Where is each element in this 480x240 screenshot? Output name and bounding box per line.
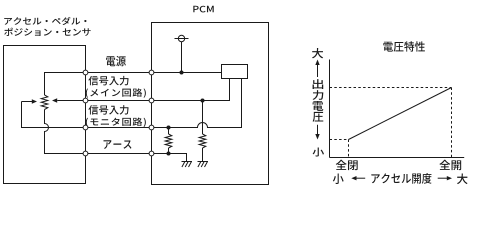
y axis label 小 [313, 147, 324, 156]
potentiometer track resistor (APP sensor) [41, 95, 48, 110]
terminal circle sensor side dengen [83, 70, 88, 75]
net label アース (earth) [103, 140, 131, 149]
terminal circle PCM side dengen [149, 70, 154, 75]
net label 電源 (power) [106, 56, 126, 66]
wiper arrow (main) on メイン wire pointing left into track [57, 100, 85, 102]
x axis label 大 [457, 174, 468, 185]
x axis left arrow [356, 177, 365, 179]
characteristic line output voltage vs opening [349, 88, 452, 140]
x axis tick label 全閉 [336, 160, 358, 170]
junction dot on モニタ line at R1 [167, 126, 171, 130]
x axis line [330, 157, 465, 159]
net label (モニタ回路) [86, 118, 146, 127]
y axis up arrow [317, 64, 319, 77]
resistor R1 lead from モニタ line [168, 128, 170, 135]
chassis ground symbol for R2 [198, 162, 209, 168]
regulator block U1 [222, 65, 248, 79]
dashed guide closed throttle vertical [348, 140, 350, 158]
wire: potentiometer bottom to earth terminal with hop over wiper wire [45, 110, 86, 154]
wire: power feed from 電源 terminal to potentiometer top [45, 73, 86, 96]
terminal circle PCM side monitor [149, 125, 154, 130]
resistor R2 lead from メイン line [202, 101, 204, 135]
wire 信号入力 main sensor to PCM [86, 79, 230, 101]
wire 電源 power sensor to PCM regulator [86, 72, 222, 74]
terminal circle PCM side earth [149, 151, 154, 156]
y axis label 力 [313, 90, 324, 100]
wire アース earth sensor to PCM then chassis ground [86, 154, 187, 162]
terminal circle PCM side main [149, 98, 154, 103]
resistor R2 pull-down on main signal [199, 134, 206, 148]
label accelerator pedal position sensor line2 ポジション・センサ [4, 28, 90, 36]
junction dot R1 bottom on アース line [167, 152, 171, 156]
dashed guide max voltage [330, 87, 452, 89]
y axis down arrow [317, 125, 319, 135]
sensor box (APP sensor enclosure) [4, 46, 86, 184]
PCM box (enclosure) [152, 23, 269, 185]
junction dot on メイン line at R2 [201, 99, 205, 103]
terminal circle sensor side earth [83, 151, 88, 156]
resistor R1 pull-down on monitor signal [165, 134, 172, 148]
wire 信号入力 monitor sensor to PCM with hop over R2 lead [86, 79, 242, 128]
graph title 電圧特性 [383, 41, 425, 51]
y axis label 圧 [313, 112, 324, 122]
y axis label 出 [313, 79, 324, 89]
label accelerator pedal position sensor line1 アクセル・ペダル・ [4, 17, 86, 25]
net label (メイン回路) [86, 88, 146, 97]
wire: monitor wiper down and right to モニタ terminal [22, 102, 86, 128]
terminal circle sensor side monitor [83, 125, 88, 130]
x axis label 小 [333, 173, 344, 184]
x axis label アクセル開度 [371, 173, 431, 184]
y axis label 大 [312, 48, 323, 58]
x axis right arrow [438, 177, 447, 179]
wire: R2 to chassis ground [202, 148, 204, 162]
dashed guide min voltage [330, 139, 349, 141]
wiper arrow (monitor) pointing right into track [22, 101, 33, 103]
label PCM [193, 6, 213, 13]
wire: power symbol branch to 電源 line [181, 42, 183, 73]
wire: R1 to アース line [168, 148, 170, 154]
x axis tick label 全開 [439, 160, 461, 170]
y axis line [329, 60, 331, 158]
y axis label 電 [313, 101, 324, 111]
terminal circle sensor side main [83, 98, 88, 103]
net label 信号入力 (signal input monitor) [88, 105, 128, 115]
power supply symbol: circle with bar [178, 35, 184, 41]
junction dot: power branch on 電源 line [180, 71, 184, 75]
chassis ground symbol for earth line [182, 162, 193, 168]
dashed guide open throttle vertical [451, 88, 453, 158]
net label 信号入力 (signal input main) [88, 76, 128, 86]
